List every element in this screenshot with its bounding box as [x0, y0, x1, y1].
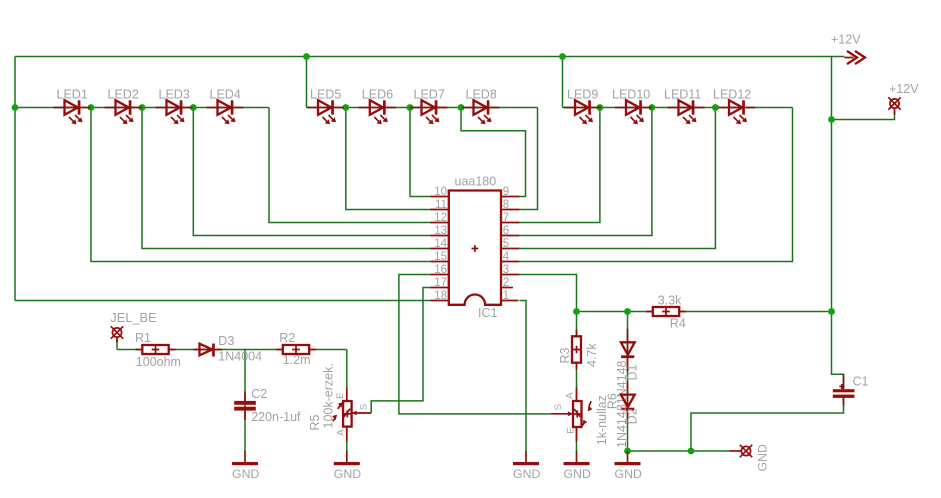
ground under C2 — [232, 451, 259, 481]
IC1 pin 3 — [501, 274, 519, 276]
svg-text:LED3: LED3 — [159, 88, 190, 102]
IC1 pin 17 — [431, 287, 449, 289]
IC1 pin 7 — [501, 222, 519, 224]
wire pin 16 to R6 wiper — [399, 275, 551, 414]
wire LED9 node to pin 7 — [519, 108, 600, 223]
node D2 bottom junction — [624, 448, 631, 455]
svg-text:R5: R5 — [308, 414, 322, 430]
svg-text:LED5: LED5 — [310, 88, 341, 102]
pin JEL_BE input — [111, 326, 123, 338]
diode D3 — [193, 334, 262, 363]
node D1 top junction — [624, 308, 631, 315]
IC1 pin 15 — [431, 261, 449, 263]
LED LED4 — [207, 100, 244, 124]
LED LED3 — [156, 100, 193, 124]
svg-text:LED4: LED4 — [210, 88, 241, 102]
svg-text:LED1: LED1 — [57, 88, 88, 102]
resistor R1 — [136, 345, 176, 354]
power +12V pin — [888, 82, 919, 115]
node left rail LED1 junction — [12, 104, 19, 111]
svg-text:JEL_BE: JEL_BE — [110, 310, 156, 325]
wire D1 D2 column — [627, 312, 629, 452]
wire +12V top bus — [15, 56, 845, 58]
IC1 pin 16 — [431, 274, 449, 276]
wire LED5 node to pin 11 — [346, 108, 431, 210]
wire LED row group 1 — [15, 107, 269, 109]
svg-text:LED12: LED12 — [713, 88, 751, 102]
ground under R6 — [564, 451, 591, 481]
IC1 pin 1 — [501, 300, 518, 302]
wire LED2 node to pin 14 — [142, 108, 431, 249]
svg-text:LED10: LED10 — [612, 88, 650, 102]
LED LED8 — [463, 100, 500, 124]
svg-text:E: E — [335, 393, 346, 399]
wire LED row group 3 — [563, 107, 793, 109]
svg-text:LED6: LED6 — [362, 88, 393, 102]
wire LED6 node to pin 10 — [410, 108, 431, 197]
IC1 pin numbers left — [434, 186, 447, 302]
svg-text:C1: C1 — [853, 374, 869, 388]
wire pin 18 net — [15, 300, 431, 302]
capacitor C2 — [234, 387, 301, 424]
svg-text:1.2m: 1.2m — [283, 353, 311, 367]
svg-text:LED9: LED9 — [567, 88, 598, 102]
svg-text:12: 12 — [434, 212, 447, 224]
wire R4 row — [577, 311, 832, 313]
svg-text:8: 8 — [503, 199, 509, 211]
IC1 pin 11 — [431, 209, 449, 211]
svg-text:6: 6 — [503, 225, 509, 237]
IC1 pin 9 — [501, 196, 519, 198]
wire +12V pin connection — [832, 111, 895, 120]
node LED11-LED12 junction — [712, 104, 719, 111]
svg-text:3.3k: 3.3k — [658, 293, 682, 307]
IC1 pin 18 — [431, 300, 449, 302]
IC1 pin 5 — [501, 248, 519, 250]
LED LED10 — [615, 100, 652, 124]
power +12V arrow — [831, 33, 865, 65]
LED LED9 — [564, 100, 601, 124]
svg-text:uaa180: uaa180 — [455, 175, 497, 189]
LED LED2 — [105, 100, 142, 124]
ground under D2 — [615, 451, 642, 481]
svg-text:220n-1uf: 220n-1uf — [251, 410, 301, 424]
diode D2 — [615, 381, 640, 448]
IC1 pin 4 — [501, 261, 519, 263]
resistor R3 — [572, 330, 581, 370]
wire C1 bottom to ground node — [691, 398, 844, 452]
svg-text:1N4004: 1N4004 — [218, 350, 262, 364]
capacitor C1 — [833, 374, 869, 405]
LED LED7 — [411, 100, 448, 124]
svg-text:2: 2 — [503, 277, 509, 289]
node R3 top junction — [573, 308, 580, 315]
node LED5-LED6 junction — [342, 104, 349, 111]
IC1 origin cross — [472, 245, 479, 252]
IC1 pin 12 — [431, 222, 449, 224]
wire LED row group 2 — [307, 107, 538, 109]
svg-text:4: 4 — [503, 251, 510, 263]
svg-text:LED8: LED8 — [466, 88, 497, 102]
node +12V pin junction — [828, 116, 835, 123]
wire LED10 node to pin 6 — [519, 108, 652, 236]
svg-text:15: 15 — [434, 251, 447, 263]
svg-text:1: 1 — [503, 290, 509, 302]
wire +12V right rail — [832, 57, 844, 391]
svg-text:4.7k: 4.7k — [585, 343, 599, 367]
wire bus drop to LED5 — [306, 57, 308, 108]
wire pin 3 to R4 node — [519, 275, 576, 312]
IC1 pin 14 — [431, 248, 449, 250]
diode D1 — [615, 329, 640, 404]
svg-text:LED7: LED7 — [414, 88, 445, 102]
svg-text:R3: R3 — [558, 347, 572, 363]
LED LED5 — [307, 100, 344, 124]
svg-text:R1: R1 — [135, 331, 151, 345]
node bus-LED9 junction — [559, 53, 566, 60]
svg-text:1k-nullaz: 1k-nullaz — [595, 395, 609, 445]
svg-text:13: 13 — [434, 225, 447, 237]
svg-text:R4: R4 — [670, 317, 686, 331]
node LED7-LED8 junction — [458, 104, 465, 111]
svg-text:3: 3 — [503, 264, 509, 276]
wire LED12 to pin 4 — [519, 108, 792, 262]
wire LED8 to pin 8 — [519, 108, 537, 210]
wire left rail (bus to pin 18 row) — [14, 57, 16, 301]
svg-text:100ohm: 100ohm — [136, 355, 181, 369]
svg-text:+12V: +12V — [889, 82, 919, 96]
wire R3 R6 column — [576, 312, 578, 452]
wire LED1 node to pin 15 — [91, 108, 431, 262]
svg-text:9: 9 — [503, 186, 509, 198]
potentiometer R5 — [308, 363, 371, 441]
ground under IC pin 1 — [513, 451, 540, 481]
svg-text:S: S — [553, 404, 564, 410]
node LED6-LED7 junction — [407, 104, 414, 111]
node bus-LED5 junction — [303, 53, 310, 60]
op-amp/driver IC1 uaa180 body — [449, 191, 501, 305]
wire bus drop to LED9 — [562, 57, 564, 108]
svg-text:5: 5 — [503, 238, 509, 250]
svg-text:+12V: +12V — [831, 33, 861, 47]
wire pin 17 to R5 wiper — [371, 288, 430, 414]
node LED1-LED2 junction — [88, 104, 95, 111]
wire input row JEL_BE to R5 — [117, 349, 347, 351]
wire C2 branch — [244, 350, 246, 452]
wire LED7 node to pin 9 — [461, 108, 526, 197]
LED LED6 — [359, 100, 396, 124]
ground test pin — [730, 450, 742, 452]
node LED10-LED11 junction — [649, 104, 656, 111]
wire LED11 node to pin 5 — [519, 108, 715, 249]
svg-text:14: 14 — [434, 238, 447, 250]
node ground row junction — [688, 448, 695, 455]
wire JEL_BE pin drop — [116, 339, 118, 350]
svg-text:E: E — [565, 427, 576, 433]
svg-text:10: 10 — [434, 186, 447, 198]
node LED3-LED4 junction — [190, 104, 197, 111]
svg-text:1N4148: 1N4148 — [615, 404, 629, 448]
node LED9-LED10 junction — [597, 104, 604, 111]
svg-text:17: 17 — [434, 277, 447, 289]
svg-text:C2: C2 — [251, 387, 267, 401]
potentiometer R6 — [551, 388, 620, 446]
svg-text:A: A — [336, 429, 347, 436]
resistor R2 — [276, 345, 316, 354]
IC1 pin numbers right — [503, 186, 510, 302]
LED LED1 — [54, 100, 91, 124]
svg-text:A: A — [565, 392, 576, 399]
svg-text:100k-erzek.: 100k-erzek. — [322, 363, 336, 428]
resistor R4 — [646, 307, 686, 316]
svg-text:R2: R2 — [279, 331, 295, 345]
wire LED4 to pin 12 — [269, 108, 431, 223]
IC1 pin 6 — [501, 235, 519, 237]
svg-text:18: 18 — [434, 290, 447, 302]
svg-text:LED2: LED2 — [108, 88, 139, 102]
svg-text:11: 11 — [435, 199, 447, 211]
wire LED3 node to pin 13 — [193, 108, 430, 236]
svg-text:16: 16 — [434, 264, 447, 276]
IC1 pin 8 — [501, 209, 519, 211]
wire R5 column — [346, 350, 348, 452]
node LED2-LED3 junction — [139, 104, 146, 111]
wire bottom ground row — [628, 450, 730, 452]
IC1 pin 13 — [431, 235, 449, 237]
wire pin 1 to GND — [519, 301, 526, 452]
IC1 pin 10 — [431, 196, 449, 198]
svg-text:7: 7 — [503, 212, 509, 224]
svg-text:S: S — [359, 404, 370, 410]
LED LED12 — [718, 100, 755, 124]
LED LED11 — [668, 100, 705, 124]
IC1 pin 2 — [501, 287, 513, 289]
svg-text:GND: GND — [756, 444, 770, 471]
svg-text:D3: D3 — [218, 334, 234, 348]
ground under R5 — [334, 451, 361, 481]
node R4 right junction — [828, 308, 835, 315]
svg-text:IC1: IC1 — [478, 306, 498, 320]
svg-text:LED11: LED11 — [664, 88, 701, 102]
